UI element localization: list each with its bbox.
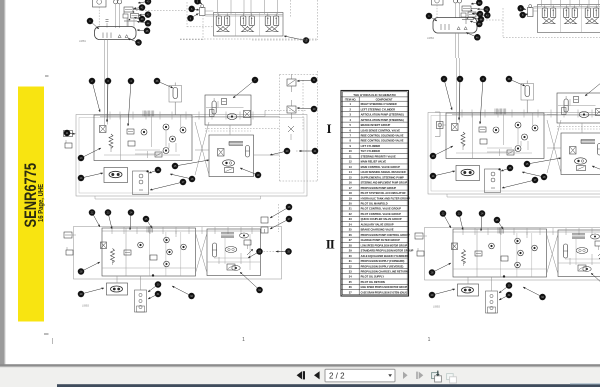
svg-text:CASE DRAIN PROPULSION SYSTEM (: CASE DRAIN PROPULSION SYSTEM (ONLY) xyxy=(361,290,408,294)
cluster port dots T2 xyxy=(471,10,473,12)
svg-text:PILOT CONTROL VALVE GROUP: PILOT CONTROL VALVE GROUP xyxy=(361,207,402,211)
riser r6 xyxy=(277,0,279,14)
callout dot 46 xyxy=(128,39,142,46)
first-page button xyxy=(297,371,305,379)
callout dot 6 xyxy=(188,6,199,13)
svg-text:PROPULSION PUMP GROUP: PROPULSION PUMP GROUP xyxy=(361,186,397,190)
svg-text:PILOT OIL SUPPLY: PILOT OIL SUPPLY xyxy=(361,275,385,279)
svg-text:I: I xyxy=(326,121,331,136)
yellow sticker label xyxy=(18,87,44,322)
svg-text:SUPPLEMENTAL STEERING PUMP: SUPPLEMENTAL STEERING PUMP xyxy=(361,175,404,179)
valve unit V1c xyxy=(265,13,279,31)
page number field xyxy=(325,369,395,382)
svg-text:PROPULSION CHARGE LINE RETURN: PROPULSION CHARGE LINE RETURN xyxy=(361,269,408,273)
tank feed box T1 xyxy=(93,0,107,28)
svg-text:MAIN CONTROL VALVE GROUP: MAIN CONTROL VALVE GROUP xyxy=(361,165,401,169)
svg-text:STEERING PRIORITY VALVE: STEERING PRIORITY VALVE xyxy=(361,154,396,158)
svg-text:PILOT OIL MANIFOLD: PILOT OIL MANIFOLD xyxy=(361,201,388,205)
callout dot 8 xyxy=(519,12,528,19)
riser s6 xyxy=(588,0,590,6)
svg-text:LOW SPEED PROPULSION MOTOR GRO: LOW SPEED PROPULSION MOTOR GROUP xyxy=(361,243,408,247)
field dropdown arrow xyxy=(388,374,392,377)
valve unit V2a xyxy=(542,5,556,23)
svg-text:PILOT SYSTEM OIL ACCUMULATOR: PILOT SYSTEM OIL ACCUMULATOR xyxy=(361,191,406,195)
callout dot 41 xyxy=(477,6,490,13)
bank I pilot boundary (dashed) xyxy=(180,39,203,41)
suction strainer xyxy=(124,7,133,12)
bank II dividers xyxy=(560,5,562,33)
steering valve (left margin of section I) xyxy=(64,131,77,137)
callout dot 5 xyxy=(194,0,202,4)
svg-text:RIDE CONTROL SOLENOID VALVE: RIDE CONTROL SOLENOID VALVE xyxy=(361,134,404,138)
window edge bar xyxy=(57,384,600,387)
last-page button (disabled) xyxy=(416,372,423,379)
svg-text:HIGH SPEED PROPULSION MOTOR GR: HIGH SPEED PROPULSION MOTOR GROUP xyxy=(361,285,408,289)
suction strainer T2 xyxy=(462,6,471,11)
svg-text:II: II xyxy=(326,237,335,252)
callout dot 8 xyxy=(187,14,198,22)
svg-text:AXLE EQUALIZER BLEED CYLINDERS: AXLE EQUALIZER BLEED CYLINDERS xyxy=(361,254,409,258)
cluster port dots xyxy=(133,11,135,13)
toolbar band xyxy=(0,367,600,387)
svg-text:TILT CYLINDER: TILT CYLINDER xyxy=(361,149,380,153)
svg-text:ARTICULATION PUMP (STEERING): ARTICULATION PUMP (STEERING) xyxy=(361,113,404,117)
riser s1 xyxy=(541,0,543,6)
previous-page button xyxy=(314,371,320,379)
inlet fitting F2 xyxy=(528,5,538,17)
callout dot 6 xyxy=(517,5,526,12)
svg-text:QUICK COUPLER VALVE GROUP: QUICK COUPLER VALVE GROUP xyxy=(361,217,402,221)
filler screen T2 xyxy=(461,13,466,17)
svg-text:COMPONENT: COMPONENT xyxy=(376,98,393,102)
vent line (dashed) xyxy=(136,10,187,12)
svg-text:1: 1 xyxy=(242,337,245,343)
callout dot 46 xyxy=(466,33,481,41)
svg-text:LOAD SENSING SIGNAL RESOLVER: LOAD SENSING SIGNAL RESOLVER xyxy=(361,170,406,174)
bank II supply rails xyxy=(534,5,600,7)
svg-text:16 Page, UHE: 16 Page, UHE xyxy=(38,183,46,222)
breather valve xyxy=(131,14,139,19)
valve unit V2b xyxy=(564,5,578,23)
svg-text:RIGHT STEERING CYLINDER: RIGHT STEERING CYLINDER xyxy=(361,102,397,106)
page bottom edge xyxy=(0,364,600,367)
vent line T2 (dashed) xyxy=(477,19,503,21)
svg-text:MAIN RELIEF VALVE: MAIN RELIEF VALVE xyxy=(361,160,387,164)
svg-text:LOAD SENSE CONTROL VALVE: LOAD SENSE CONTROL VALVE xyxy=(361,128,401,132)
valve unit V1b xyxy=(241,13,255,31)
svg-text:THE HYDRAULIC SCHEMATIC: THE HYDRAULIC SCHEMATIC xyxy=(353,93,397,97)
callout dot 1 xyxy=(87,18,99,29)
control valve bank II box xyxy=(538,5,600,33)
callout dot 12 xyxy=(284,36,309,44)
svg-text:1: 1 xyxy=(428,337,431,343)
callout dot 45 xyxy=(137,28,150,35)
riser r4 xyxy=(250,0,252,14)
riser s5 xyxy=(579,0,581,6)
svg-text:LEFT STEERING CYLINDER: LEFT STEERING CYLINDER xyxy=(361,107,396,111)
svg-text:ITEM NO.: ITEM NO. xyxy=(345,98,357,102)
svg-text:STANDARD PROPULSION MOTOR GROU: STANDARD PROPULSION MOTOR GROUP xyxy=(361,249,414,253)
banner top dash xyxy=(45,75,49,77)
left scrollbar strip xyxy=(0,0,5,366)
callout dot 41 xyxy=(134,4,146,11)
callout dot 42 xyxy=(472,11,483,18)
callout dot 43 xyxy=(134,16,145,23)
bank I dividers xyxy=(235,13,237,37)
callout dot 44 xyxy=(472,16,484,23)
callout dot 43 xyxy=(478,12,491,18)
callout dot 42 xyxy=(139,11,151,18)
svg-text:HYDRAULIC TANK AND FILTER GROU: HYDRAULIC TANK AND FILTER GROUP xyxy=(361,196,410,200)
svg-text:PILOT OIL RETURN: PILOT OIL RETURN xyxy=(361,280,385,284)
level mark xyxy=(106,20,109,28)
bank I supply rails xyxy=(206,13,284,15)
gauge G2 xyxy=(118,0,122,28)
margin check valve (section I) xyxy=(65,140,72,148)
riser s3 xyxy=(560,0,562,6)
riser r3 xyxy=(243,0,245,14)
svg-text:RIDE CONTROL SOLENOID VALVE: RIDE CONTROL SOLENOID VALVE xyxy=(361,139,404,143)
tank outlet lines xyxy=(104,40,106,61)
next-page button (disabled) xyxy=(403,372,408,379)
tank T2 outlet lines xyxy=(455,33,457,58)
cluster tie lines xyxy=(133,9,140,11)
svg-text:ARTICULATION PUMP (STEERING): ARTICULATION PUMP (STEERING) xyxy=(361,118,404,122)
valve unit V1a xyxy=(216,13,230,31)
gauge G4 xyxy=(458,0,462,18)
riser r5 xyxy=(264,0,266,14)
margin dash xyxy=(44,333,49,335)
valve unit V2c xyxy=(585,5,599,23)
control valve bank I box xyxy=(214,13,284,37)
riser r2 xyxy=(230,0,232,14)
svg-text:STEERING AND IMPLEMENT PUMP GR: STEERING AND IMPLEMENT PUMP GROUP xyxy=(361,181,408,185)
hydraulic tank T2 xyxy=(433,18,477,34)
return tee xyxy=(127,18,134,27)
riser r1 xyxy=(217,0,219,14)
inlet fitting F1 xyxy=(200,5,214,16)
riser s7 xyxy=(598,0,600,6)
svg-text:L08B1: L08B1 xyxy=(79,40,87,43)
svg-text:PROPULSION SUPPLY (REVERSE): PROPULSION SUPPLY (REVERSE) xyxy=(361,264,404,268)
riser s2 xyxy=(550,0,552,6)
svg-text:L08B4: L08B4 xyxy=(427,37,435,40)
cluster tie lines T2 xyxy=(471,8,477,10)
bank I region (dashed) xyxy=(290,0,292,18)
callout dot 44 xyxy=(137,20,151,27)
vent drop (dashed) xyxy=(186,2,188,27)
hydraulic tank T1 xyxy=(95,27,137,40)
svg-text:BRAKE CHARGING VALVE: BRAKE CHARGING VALVE xyxy=(361,228,394,232)
svg-text:AUXILIARY VALVE GROUP: AUXILIARY VALVE GROUP xyxy=(361,222,394,226)
riser s4 xyxy=(569,0,571,6)
bank I lower pilot line (dashed) xyxy=(180,38,318,40)
gauge G1 xyxy=(114,0,118,28)
svg-text:CHARGE PUMP FILTER GROUP: CHARGE PUMP FILTER GROUP xyxy=(361,238,401,242)
svg-text:PROPULSION SUPPLY (FORWARD): PROPULSION SUPPLY (FORWARD) xyxy=(361,259,405,263)
legend table xyxy=(341,91,414,297)
callout dot 11 xyxy=(64,130,75,137)
svg-text:PILOT CONTROL VALVE GROUP: PILOT CONTROL VALVE GROUP xyxy=(361,212,402,216)
svg-text:BRAKE INVERT GROUP: BRAKE INVERT GROUP xyxy=(361,123,391,127)
next-view icon (disabled) xyxy=(447,374,457,383)
callout dot 40 xyxy=(471,0,483,6)
svg-text:PROPULSION PUMP CONTROL GROUP: PROPULSION PUMP CONTROL GROUP xyxy=(361,233,410,237)
callout dot 45 xyxy=(470,21,483,28)
breather valve T2 xyxy=(468,12,476,17)
previous-view icon xyxy=(432,371,442,382)
bracket assembly (right section) xyxy=(435,112,446,137)
callout dot 40 xyxy=(138,0,151,5)
vent run (dashed) xyxy=(187,26,214,28)
margin tick xyxy=(52,338,54,344)
gauge G3 xyxy=(454,0,458,18)
filler screen xyxy=(123,14,128,18)
svg-text:2 / 2: 2 / 2 xyxy=(329,372,345,381)
callout dot 1 xyxy=(426,13,437,21)
svg-text:LIFT CYLINDER: LIFT CYLINDER xyxy=(361,144,381,148)
tank feed box T2 xyxy=(432,0,444,18)
